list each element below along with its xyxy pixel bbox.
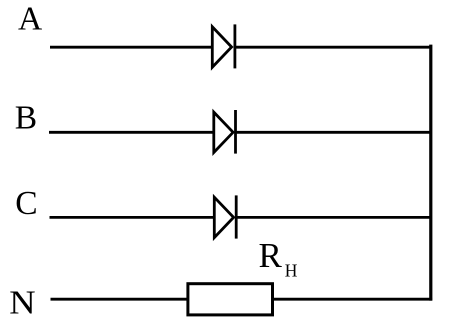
wire A right: [235, 46, 431, 49]
wire B left: [49, 131, 214, 134]
wire A left: [50, 46, 212, 49]
wire N right: [273, 298, 432, 301]
resistor Rн (load): [188, 284, 273, 315]
svg-text:B: B: [15, 99, 37, 136]
svg-text:H: H: [285, 260, 298, 280]
wire C left: [50, 216, 215, 219]
svg-text:C: C: [15, 185, 37, 222]
wire B right: [236, 131, 430, 134]
svg-text:R: R: [259, 236, 283, 275]
wire C right: [236, 216, 431, 219]
diode VD3: [214, 195, 236, 238]
diode VD2: [214, 110, 236, 154]
wire N left: [51, 298, 189, 301]
diode VD1: [212, 24, 235, 68]
wire right bus: [429, 45, 432, 301]
svg-text:A: A: [18, 0, 42, 37]
svg-text:N: N: [9, 284, 35, 321]
